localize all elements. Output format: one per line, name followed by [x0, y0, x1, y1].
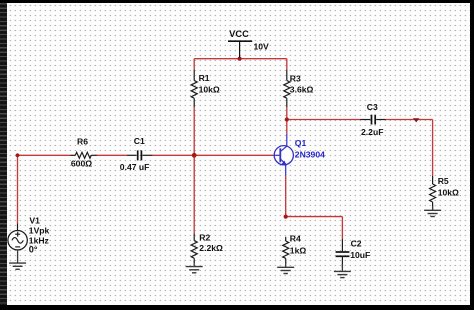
svg-text:600Ω: 600Ω — [71, 158, 92, 168]
label C2 value 10uF — [350, 250, 370, 260]
ground for R4 — [277, 260, 294, 274]
label C1 value 0.47 uF — [120, 162, 150, 172]
resistor R4 — [283, 237, 289, 264]
svg-text:VCC: VCC — [229, 29, 249, 39]
label R4 value 1k&#937; — [290, 245, 307, 255]
ground for V1 — [9, 250, 26, 269]
svg-text:10kΩ: 10kΩ — [438, 188, 459, 198]
capacitor C1 — [127, 150, 153, 160]
label R2 — [199, 233, 210, 243]
svg-text:1kΩ: 1kΩ — [290, 245, 307, 255]
resistor R5 — [430, 176, 436, 211]
ground for R2 — [186, 260, 203, 273]
wire: C3 to output corner — [386, 119, 433, 121]
wire direction arrow on output wire — [413, 118, 420, 122]
transistor Q1 NPN — [274, 134, 293, 176]
label VCC — [229, 29, 249, 39]
svg-text:R2: R2 — [199, 233, 210, 243]
label R3 value 3.6k&#937; — [290, 85, 314, 95]
ground for R5 — [424, 206, 441, 217]
wire: Q1 emitter down to emitter node — [285, 176, 287, 217]
wire: C2 drop — [341, 217, 343, 239]
label V1 value 1kHz — [29, 235, 49, 245]
wire: input segment from source node to R6 — [18, 154, 71, 156]
power VCC symbol — [228, 41, 252, 57]
svg-text:R6: R6 — [77, 137, 88, 147]
label R6 value 600&#937; — [71, 158, 92, 168]
svg-text:Q1: Q1 — [295, 138, 307, 148]
svg-text:C2: C2 — [351, 238, 362, 248]
svg-text:R3: R3 — [290, 73, 301, 83]
wire: R1 bottom through base node to R2 — [193, 107, 195, 233]
wire: V1 source vertical — [17, 155, 19, 223]
label VCC value 10V — [254, 42, 270, 52]
label R1 value 10k&#937; — [199, 85, 220, 95]
wire: emitter node to C2 — [286, 216, 343, 218]
label V1 — [29, 215, 40, 225]
ground for C2 — [334, 264, 351, 278]
label R4 — [290, 233, 301, 243]
svg-text:R1: R1 — [199, 73, 210, 83]
wire: output down to R5 — [432, 120, 434, 176]
label R6 — [77, 137, 88, 147]
svg-text:0.47 uF: 0.47 uF — [120, 162, 150, 172]
wire: collector node to C3 — [287, 119, 360, 121]
label R5 value 10k&#937; — [438, 188, 459, 198]
resistor R6 — [70, 152, 97, 158]
svg-text:10kΩ: 10kΩ — [199, 85, 220, 95]
resistor R2 — [191, 233, 197, 263]
node: source output corner — [16, 153, 20, 157]
wire: VCC top bus — [194, 58, 287, 60]
label C3 — [367, 102, 378, 112]
resistor R1 — [191, 70, 197, 107]
resistor R3 — [284, 70, 290, 107]
svg-text:0°: 0° — [29, 245, 38, 255]
svg-text:10uF: 10uF — [350, 250, 370, 260]
node: VCC junction on bus — [238, 57, 242, 61]
node: collector output junction — [285, 117, 289, 121]
label R3 — [290, 73, 301, 83]
svg-text:2N3904: 2N3904 — [295, 149, 325, 159]
label R5 — [438, 176, 449, 186]
wire: R3 to collector node — [286, 107, 288, 120]
capacitor C2 — [336, 239, 350, 267]
svg-text:R4: R4 — [290, 233, 301, 243]
capacitor C3 — [360, 115, 385, 125]
svg-text:2.2kΩ: 2.2kΩ — [199, 243, 223, 253]
AC source V1 — [8, 223, 27, 250]
label V1 value 0&#176; — [29, 245, 38, 255]
svg-text:1Vpk: 1Vpk — [29, 226, 50, 236]
svg-text:3.6kΩ: 3.6kΩ — [290, 85, 314, 95]
svg-text:V1: V1 — [29, 215, 40, 225]
node: emitter junction — [284, 215, 288, 219]
node: base node junction — [192, 153, 197, 158]
label Q1 value 2N3904 — [295, 149, 325, 159]
label Q1 — [295, 138, 307, 148]
label C3 value 2.2uF — [361, 127, 383, 137]
label R1 — [199, 73, 210, 83]
label V1 value 1Vpk — [29, 226, 50, 236]
wire: C1 to base node and Q1 base — [153, 154, 275, 156]
svg-text:R5: R5 — [438, 176, 449, 186]
label C2 — [351, 238, 362, 248]
svg-text:2.2uF: 2.2uF — [361, 127, 383, 137]
label R2 value 2.2k&#937; — [199, 243, 223, 253]
svg-text:C1: C1 — [134, 136, 145, 146]
wire: bus to R3 — [286, 59, 288, 70]
svg-text:C3: C3 — [367, 102, 378, 112]
label C1 — [134, 136, 145, 146]
svg-text:10V: 10V — [254, 42, 270, 52]
wire: bus to R1 — [193, 59, 195, 70]
wire: R6 to C1 — [97, 154, 127, 156]
wire: collector node to Q1 collector — [286, 120, 288, 134]
